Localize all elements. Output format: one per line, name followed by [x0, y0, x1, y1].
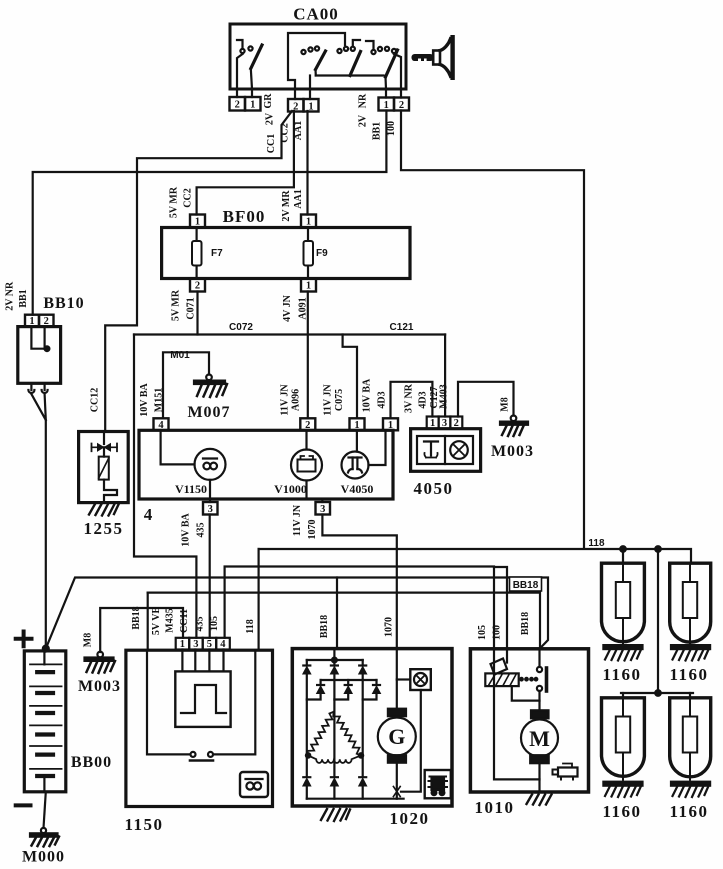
- svg-text:CC12: CC12: [90, 388, 101, 412]
- svg-text:F7: F7: [211, 248, 223, 259]
- svg-text:1: 1: [180, 639, 185, 650]
- svg-text:M8: M8: [500, 397, 511, 411]
- svg-text:C071: C071: [186, 297, 197, 319]
- svg-text:5: 5: [207, 639, 212, 650]
- svg-text:2V NR: 2V NR: [4, 281, 15, 311]
- svg-text:2V: 2V: [265, 112, 276, 125]
- svg-text:4D3: 4D3: [418, 391, 429, 408]
- svg-text:3V NR: 3V NR: [404, 383, 415, 413]
- svg-text:M003: M003: [491, 443, 534, 460]
- svg-text:M151: M151: [154, 388, 165, 412]
- svg-text:4: 4: [220, 639, 226, 650]
- svg-text:3: 3: [442, 418, 447, 429]
- svg-text:BB18: BB18: [131, 606, 142, 629]
- svg-text:CC2: CC2: [183, 188, 194, 207]
- svg-text:10V BA: 10V BA: [181, 513, 192, 547]
- svg-text:1: 1: [354, 420, 359, 431]
- svg-text:11V JN: 11V JN: [280, 384, 291, 416]
- svg-text:1020: 1020: [390, 809, 430, 828]
- svg-text:1: 1: [430, 418, 435, 429]
- svg-text:GR: GR: [263, 93, 274, 109]
- svg-text:M8: M8: [83, 633, 94, 647]
- svg-text:1: 1: [250, 100, 255, 111]
- svg-text:11V JN: 11V JN: [323, 384, 334, 416]
- svg-text:M: M: [529, 726, 550, 751]
- svg-text:5V VE: 5V VE: [151, 607, 162, 636]
- svg-text:11V JN: 11V JN: [292, 504, 303, 536]
- svg-text:105: 105: [209, 616, 220, 631]
- svg-text:2: 2: [399, 100, 404, 111]
- svg-text:A096: A096: [291, 389, 302, 411]
- svg-text:M01: M01: [170, 350, 190, 361]
- svg-text:1: 1: [306, 281, 311, 292]
- svg-text:M403: M403: [439, 384, 450, 408]
- svg-text:BF00: BF00: [223, 207, 266, 226]
- svg-text:1150: 1150: [124, 815, 163, 834]
- svg-text:2V: 2V: [358, 114, 369, 127]
- svg-text:M007: M007: [187, 404, 230, 421]
- svg-text:BB18: BB18: [513, 580, 539, 591]
- svg-text:C121: C121: [390, 322, 414, 333]
- svg-text:2: 2: [44, 316, 49, 327]
- svg-text:1: 1: [195, 217, 200, 228]
- svg-text:3: 3: [193, 639, 198, 650]
- svg-text:5V MR: 5V MR: [171, 289, 182, 321]
- svg-text:2: 2: [195, 281, 200, 292]
- svg-text:V1000: V1000: [274, 482, 307, 496]
- svg-text:BB18: BB18: [520, 612, 531, 635]
- svg-text:105: 105: [477, 625, 488, 640]
- svg-text:1: 1: [308, 102, 313, 113]
- svg-text:1: 1: [388, 420, 393, 431]
- svg-text:118: 118: [588, 538, 605, 549]
- svg-text:G: G: [388, 724, 405, 749]
- svg-text:M435: M435: [165, 608, 176, 632]
- svg-text:1255: 1255: [84, 519, 124, 538]
- svg-text:4: 4: [144, 505, 154, 524]
- svg-text:2V MR: 2V MR: [281, 190, 292, 222]
- svg-text:V4050: V4050: [341, 482, 374, 496]
- svg-text:AA1: AA1: [293, 189, 304, 208]
- svg-text:2: 2: [235, 100, 240, 111]
- svg-text:AA1: AA1: [293, 121, 304, 140]
- svg-text:1: 1: [384, 100, 389, 111]
- svg-text:C075: C075: [334, 389, 345, 411]
- svg-text:1: 1: [306, 217, 311, 228]
- svg-text:100: 100: [386, 121, 397, 136]
- svg-text:4D3: 4D3: [377, 391, 388, 408]
- svg-text:2: 2: [305, 420, 310, 431]
- svg-text:CC2: CC2: [280, 123, 291, 142]
- svg-text:10V BA: 10V BA: [362, 378, 373, 412]
- svg-text:1160: 1160: [602, 665, 641, 684]
- svg-text:BB10: BB10: [43, 295, 84, 312]
- svg-text:1070: 1070: [307, 520, 318, 540]
- svg-text:4V JN: 4V JN: [282, 294, 293, 322]
- svg-text:3: 3: [208, 504, 213, 515]
- svg-text:435: 435: [195, 617, 206, 632]
- svg-text:4050: 4050: [414, 479, 454, 498]
- svg-text:M003: M003: [78, 678, 121, 695]
- svg-text:100: 100: [492, 625, 503, 640]
- svg-text:2: 2: [293, 102, 298, 113]
- svg-text:435: 435: [196, 523, 207, 538]
- svg-text:2: 2: [454, 418, 459, 429]
- svg-text:1010: 1010: [475, 798, 515, 817]
- svg-text:118: 118: [245, 619, 256, 633]
- svg-text:BB18: BB18: [319, 615, 330, 638]
- svg-text:BB1: BB1: [372, 122, 383, 140]
- svg-text:CC11: CC11: [179, 609, 190, 633]
- svg-text:1160: 1160: [669, 802, 708, 821]
- svg-text:CC1: CC1: [266, 134, 277, 153]
- svg-text:BB1: BB1: [18, 289, 29, 307]
- svg-text:A091: A091: [298, 297, 309, 319]
- svg-text:4: 4: [158, 420, 164, 431]
- svg-text:1: 1: [29, 316, 34, 327]
- svg-text:10V BA: 10V BA: [139, 383, 150, 417]
- svg-text:3: 3: [320, 504, 325, 515]
- svg-text:M000: M000: [22, 849, 65, 866]
- svg-text:F9: F9: [316, 248, 328, 259]
- svg-text:5V MR: 5V MR: [169, 186, 180, 218]
- svg-text:V1150: V1150: [175, 482, 207, 496]
- svg-text:CA00: CA00: [293, 5, 339, 24]
- svg-text:1160: 1160: [669, 665, 708, 684]
- svg-text:1160: 1160: [602, 802, 641, 821]
- svg-text:BB00: BB00: [71, 754, 112, 771]
- svg-text:C072: C072: [229, 322, 253, 333]
- svg-text:NR: NR: [358, 93, 369, 108]
- svg-text:1070: 1070: [384, 617, 395, 637]
